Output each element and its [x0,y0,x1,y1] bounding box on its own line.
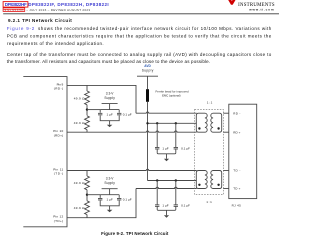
capacitor 1 uF [98,197,102,199]
transformer T1 primary winding [196,113,207,132]
svg-text:0.1 µF: 0.1 µF [181,204,190,208]
transformer T2 secondary winding [211,171,222,189]
wire pin10 RD+ rail [67,131,197,132]
svg-text:AVD: AVD [144,64,151,68]
svg-text:3.3-V: 3.3-V [106,92,114,96]
node TD center tap junction [86,194,88,196]
svg-text:0.1 µF: 0.1 µF [123,112,132,116]
wire cap common rail TD [157,209,176,210]
svg-text:(RD-): (RD-) [54,87,63,91]
svg-text:DP83822HF: DP83822HF [5,2,27,7]
ground [109,121,111,125]
ground [109,206,111,210]
resistor R1 49.9 ohm [86,85,88,91]
wire pin9 RD- [67,85,136,113]
svg-text:– JULY 2016 – REVISED AUGUST 2: – JULY 2016 – REVISED AUGUST 2023 [26,8,90,12]
decoupling box wiring [100,195,119,206]
wire TD+ rail to transformer [136,187,197,188]
svg-text:Center tap of the transformer: Center tap of the transformer must be co… [7,52,272,57]
header product link box [3,2,28,8]
svg-text:TD -: TD - [233,169,240,173]
svg-text:1 µF: 1 µF [106,197,112,201]
svg-text:0.1 µF: 0.1 µF [123,197,132,201]
doc number strike line [4,9,25,11]
resistor R2 49.9 ohm [86,105,88,116]
svg-text:Supply: Supply [104,181,115,185]
resistor R4 49.9 ohm [86,190,88,201]
svg-text:Figure 9-2. TPI Network Circui: Figure 9-2. TPI Network Circuit [101,231,169,236]
svg-text:PCB and component characterist: PCB and component characteristics requir… [7,33,272,38]
header rule [3,13,279,15]
svg-text:Figure 9-2: Figure 9-2 [7,26,35,31]
node RD center tap junction [86,108,88,110]
svg-text:9.2.1 TPI Network Circuit: 9.2.1 TPI Network Circuit [8,18,72,23]
PHY device U1 outline (left side clipped) [23,77,67,227]
svg-text:0.1 µF: 0.1 µF [181,146,190,150]
capacitor 1 uF [98,112,102,114]
svg-text:49.9 Ω: 49.9 Ω [74,206,85,210]
svg-text:1 µF: 1 µF [162,146,168,150]
transformer T2 primary winding [196,171,207,189]
wire T2 secondary to RJ45 TD+ [223,188,229,190]
ground TD caps [166,210,168,215]
svg-text:EMC (optional): EMC (optional) [162,93,180,97]
transformer T1 secondary winding [211,113,222,132]
svg-text:RD +: RD + [233,130,240,134]
decoupling box wiring [100,110,119,121]
svg-text:3.3-V: 3.3-V [106,177,114,181]
wire T2 secondary to RJ45 TD- [223,170,229,172]
wire T1 secondary to RJ45 RD- [223,112,229,114]
svg-text:RJ 45: RJ 45 [232,204,242,208]
capacitor C5 1 uF [156,123,158,147]
svg-text:1 µF: 1 µF [162,204,168,208]
node cap C5 tap [156,122,158,124]
svg-text:shows the recommended twisted-: shows the recommended twisted-pair inter… [38,26,272,31]
svg-text:(RD+): (RD+) [54,133,63,137]
wire pin11 TD- rail [67,169,197,170]
svg-text:DP83822IF, DP83822H, DP83822I: DP83822IF, DP83822H, DP83822I [28,2,109,7]
capacitor C7 1 uF [156,181,158,205]
wire TD center-tap rail [148,180,197,182]
ground RD caps [166,154,168,159]
node cap C7 tap [156,179,158,181]
wire AVD vertical [147,102,149,181]
svg-text:RD -: RD - [233,111,240,115]
capacitor C6 0.1 uF [175,123,177,147]
svg-text:(TD+): (TD+) [54,219,63,223]
wire RD- rail to transformer [136,112,197,113]
transformer module dashed outline [195,109,224,194]
wire RD center-tap rail [148,122,197,124]
svg-text:49.9 Ω: 49.9 Ω [74,97,85,101]
svg-text:www.ti.com: www.ti.com [248,8,274,12]
capacitor C8 0.1 uF [175,181,177,205]
svg-text:49.9 Ω: 49.9 Ω [74,121,85,125]
svg-text:1:1: 1:1 [207,101,213,105]
wire cap common rail RD [157,153,176,154]
capacitor 0.1 uF [117,197,121,199]
node cap C8 tap [175,179,177,181]
node cap C6 tap [175,122,177,124]
svg-text:(TD-): (TD-) [54,172,63,176]
wire pin12 TD+ [67,189,136,218]
node AVD/RD tap [146,122,148,124]
wire T1 secondary to RJ45 RD+ [223,131,229,133]
svg-text:the transformer. All resistors: the transformer. All resistors and capac… [7,59,210,64]
TI logo emblem [228,0,235,5]
svg-text:Supply: Supply [104,96,115,100]
capacitor 0.1 uF [117,112,121,114]
svg-text:49.9 Ω: 49.9 Ω [74,181,85,185]
resistor R3 49.9 ohm [86,171,88,177]
header doc number link box [3,8,25,11]
svg-text:Supply: Supply [142,69,154,73]
svg-text:requirements of the intended a: requirements of the intended application… [7,41,104,46]
svg-text:1:1: 1:1 [206,200,212,204]
ferrite bead FB1 [146,89,149,102]
RJ-45 connector outline [229,104,257,198]
svg-text:1 µF: 1 µF [106,112,112,116]
svg-text:TD +: TD + [233,187,240,191]
